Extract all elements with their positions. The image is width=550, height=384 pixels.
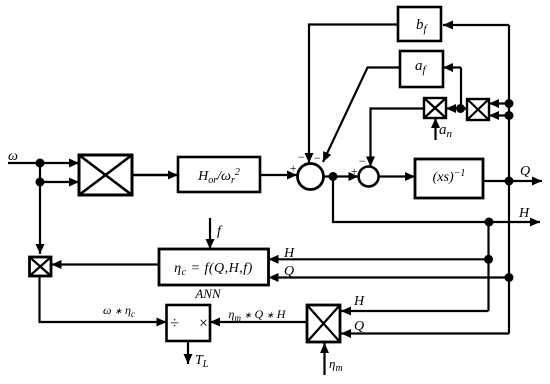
- svg-text:ηm ∗ Q ∗ H: ηm ∗ Q ∗ H: [229, 307, 287, 323]
- svg-text:ω ∗ ηc: ω ∗ ηc: [103, 303, 135, 319]
- svg-text:ω: ω: [8, 149, 18, 164]
- svg-text:Q: Q: [284, 264, 294, 279]
- svg-text:−: −: [313, 151, 321, 165]
- svg-text:ANN: ANN: [194, 286, 222, 301]
- svg-text:Q: Q: [354, 319, 364, 334]
- svg-text:af: af: [415, 58, 428, 76]
- svg-text:(xs)−1: (xs)−1: [433, 168, 466, 185]
- svg-text:an: an: [439, 122, 453, 140]
- svg-text:+: +: [289, 161, 297, 175]
- svg-text:TL: TL: [195, 353, 209, 370]
- svg-text:bf: bf: [416, 17, 429, 35]
- svg-text:×: ×: [198, 315, 209, 332]
- svg-text:H: H: [283, 246, 295, 261]
- svg-text:H: H: [353, 294, 365, 309]
- svg-text:−: −: [297, 150, 305, 164]
- svg-text:H: H: [518, 206, 530, 221]
- svg-text:ηc = f(Q,H,f): ηc = f(Q,H,f): [174, 261, 253, 278]
- svg-text:Hor/ωr2: Hor/ωr2: [197, 167, 240, 186]
- svg-text:f: f: [217, 224, 223, 239]
- svg-text:ηm: ηm: [329, 356, 343, 374]
- svg-text:−: −: [358, 154, 366, 168]
- svg-text:Q: Q: [520, 164, 530, 179]
- svg-text:÷: ÷: [170, 315, 179, 332]
- svg-text:+: +: [350, 164, 358, 178]
